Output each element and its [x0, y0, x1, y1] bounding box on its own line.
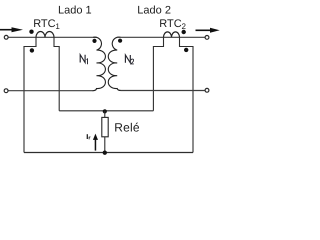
transformer winding N2: [108, 37, 121, 90]
wire differential bottom bus: [24, 152, 193, 154]
label Ir: [87, 134, 90, 139]
terminal circle bottom left: [4, 89, 8, 93]
label N2: [125, 55, 133, 64]
svg-text:RTC: RTC: [159, 18, 181, 30]
svg-text:Lado 2: Lado 2: [137, 5, 171, 17]
current Ir arrow: [93, 134, 98, 151]
svg-text:2: 2: [182, 22, 187, 31]
wire relay bottom lead: [104, 137, 106, 153]
N1 polarity dot: [92, 39, 96, 43]
N2 polarity dot: [118, 39, 122, 43]
wire relay top lead: [104, 111, 106, 118]
terminal circle top right: [205, 36, 209, 40]
RTC1 primary polarity dot: [29, 30, 33, 34]
current arrow side 1: [0, 27, 23, 32]
junction relay bottom: [103, 151, 107, 155]
label N1: [80, 55, 87, 64]
wire bottom right: [120, 90, 205, 92]
svg-text:RTC: RTC: [33, 18, 55, 30]
transformer winding N1: [93, 37, 106, 91]
relay coil: [102, 117, 108, 136]
wire top right: [117, 36, 205, 38]
wire top left: [8, 36, 97, 38]
RTC2 secondary right lead: [180, 37, 194, 152]
RTC2 primary polarity dot: [182, 30, 186, 34]
transformer RTC2 winding humps: [164, 32, 180, 37]
svg-text:Relé: Relé: [114, 121, 140, 135]
wire differential top: [59, 110, 153, 112]
current arrow side 2: [196, 28, 220, 33]
RTC2 secondary polarity dot: [184, 48, 188, 52]
svg-text:1: 1: [55, 22, 60, 31]
terminal circle bottom right: [205, 88, 209, 92]
wire bottom left: [8, 90, 93, 92]
RTC1 secondary right lead: [54, 37, 59, 111]
RTC2 secondary left lead: [153, 37, 163, 111]
label RTC1: [33, 18, 60, 31]
terminal circle top left: [4, 35, 8, 39]
RTC1 secondary left lead: [24, 37, 36, 152]
svg-text:Lado 1: Lado 1: [58, 5, 92, 17]
label RTC2: [159, 18, 186, 31]
transformer RTC1 winding humps: [36, 31, 54, 37]
junction relay top: [103, 109, 107, 113]
RTC1 secondary polarity dot: [30, 48, 34, 52]
